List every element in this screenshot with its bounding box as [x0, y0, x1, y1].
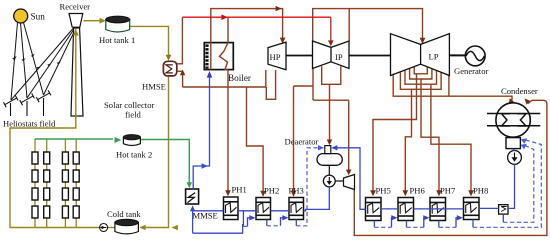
receiver — [69, 14, 83, 28]
arrow red into IP — [328, 40, 334, 46]
wire extraction to PH1 — [227, 87, 229, 194]
svg-text:Cold tank: Cold tank — [107, 209, 141, 219]
arrow extraction into PH3 — [291, 191, 297, 197]
svg-text:Deaerator: Deaerator — [285, 137, 319, 147]
solar tower — [71, 28, 83, 116]
arrow feed right to boiler riser — [202, 163, 208, 168]
svg-text:PH5: PH5 — [376, 186, 391, 196]
arrow dashed into hotwell lower — [521, 144, 527, 150]
svg-text:PH3: PH3 — [289, 186, 304, 196]
arrow green into hot tank 2 — [115, 137, 122, 143]
arrow LP steam into PH6 — [403, 190, 409, 196]
arrow green into MMSE top — [187, 182, 193, 188]
reflected ray heliostat 3 to receiver — [44, 29, 76, 95]
wire LP hook 2 — [410, 69, 432, 79]
wire extraction to BFP turbine — [348, 100, 350, 172]
arrow salt up to receiver — [73, 29, 79, 36]
sun ray to heliostat 3 — [24, 23, 44, 96]
wire riser inside tower to receiver — [75, 29, 77, 119]
wire LP extraction to PH8 — [431, 84, 471, 193]
wire HMSE outlet riser to red line — [177, 17, 183, 64]
deaerator vessel — [317, 154, 342, 166]
wire boiler internal evaporator tube — [210, 43, 212, 70]
generator — [465, 46, 485, 66]
condenser cooling water line top — [487, 113, 540, 115]
svg-text:Hot tank 1: Hot tank 1 — [99, 35, 135, 45]
reflected ray heliostat 1 to receiver — [11, 28, 74, 100]
wire cold salt: bottom line to tower riser — [10, 119, 100, 228]
arrow extraction into BFPT — [346, 170, 352, 176]
salt pump — [100, 224, 108, 232]
reflected ray heliostat 2 to receiver — [27, 29, 75, 99]
hot tank 2 — [123, 135, 140, 146]
wire receiver to hot tank 1 — [84, 20, 104, 22]
preheater PH6 — [398, 198, 414, 221]
arrow salt into HMSE top — [166, 55, 172, 61]
svg-text:LP: LP — [429, 52, 439, 62]
wire dashed PH2 drain step — [267, 225, 281, 227]
arrow LP steam into PH8 — [468, 190, 474, 196]
wire LP hook 3 — [405, 71, 437, 84]
preheater PH7 — [430, 198, 446, 221]
shaft pump-BFPT — [335, 180, 343, 182]
wire HP bottom U-link — [266, 70, 275, 99]
collector column 1 — [34, 139, 36, 228]
preheater PH3 — [289, 198, 304, 220]
wire LP exhaust hook to condenser — [393, 75, 449, 96]
arrow drain into PH2 — [249, 215, 255, 220]
wire HMSE down to cold tank line — [141, 77, 169, 228]
arrow dashed into deaerator left — [318, 145, 324, 150]
arrow salt into cold tank right — [139, 225, 145, 231]
wire PH1 to MMSE riser — [193, 210, 224, 212]
wire LP extraction to PH5 — [373, 74, 417, 194]
wire MMSE outlet to boiler — [193, 76, 209, 190]
svg-text:PH6: PH6 — [410, 186, 426, 196]
wire dashed PH3 drain to deaerator — [296, 148, 321, 226]
deaerator feed pump — [323, 175, 335, 187]
hot tank 1 — [106, 16, 130, 32]
deaerator stub — [325, 146, 331, 154]
turbine IP — [313, 41, 350, 69]
wire LP extraction to PH6 — [405, 89, 411, 193]
arrow red flow right — [221, 14, 227, 20]
wire HP exhaust to HMSE and boiler — [183, 70, 266, 87]
arrow feed into deaerator right — [331, 145, 337, 150]
wire boiler main steam riser to HP — [211, 9, 283, 43]
svg-text:field: field — [125, 110, 141, 120]
wire gland cooler to PH8 — [479, 207, 499, 209]
boiler burner hatch — [205, 44, 208, 68]
wire LP extraction to PH7 — [421, 79, 439, 194]
arrow main steam into HP — [280, 38, 286, 44]
arrow LP steam into PH7 — [436, 190, 442, 196]
wire extraction to PH3 — [293, 86, 295, 194]
cold tank — [115, 219, 139, 234]
svg-text:PH8: PH8 — [473, 186, 488, 196]
arrow salt on line right of HMSE downcomer — [172, 225, 178, 231]
arrow HP exhaust up into HMSE — [180, 70, 185, 76]
svg-text:PH1: PH1 — [232, 185, 247, 195]
wire dashed PH6 drain step — [407, 226, 424, 228]
wire drain PH8 down — [472, 220, 474, 228]
wire extraction to PH2 — [247, 87, 264, 194]
svg-text:MMSE: MMSE — [193, 211, 218, 221]
arrow feed up into boiler — [207, 71, 213, 78]
wire collector header to hot tank 2 — [35, 138, 113, 140]
svg-text:Condenser: Condenser — [501, 86, 538, 96]
wire IP to LP crossover bridge — [313, 9, 423, 41]
svg-text:Generator: Generator — [454, 66, 488, 76]
collector panels grid — [32, 152, 79, 218]
condenser hotwell — [506, 138, 520, 149]
condenser cooling water line bottom — [487, 125, 540, 127]
condenser tube glyph right — [517, 114, 526, 126]
wire cold tank to pump suction — [108, 227, 115, 229]
wire dashed PH1 drain step — [243, 225, 247, 227]
svg-text:Sun: Sun — [31, 12, 46, 22]
wire bottom collector line — [193, 224, 243, 233]
arrow drain into PH7 — [423, 215, 429, 220]
wire drain PH3 down — [295, 220, 297, 226]
svg-text:Receiver: Receiver — [60, 2, 91, 12]
wire condensate main through PH8-PH5 — [414, 208, 464, 210]
arrow drain into PH3 — [282, 215, 288, 220]
condenser tube glyph left — [502, 114, 510, 126]
svg-text:HMSE: HMSE — [142, 82, 166, 92]
wire IP extraction manifold — [312, 41, 314, 100]
preheater PH5 — [366, 198, 382, 221]
gland steam cooler box — [499, 205, 508, 214]
svg-text:Solar collector: Solar collector — [104, 100, 154, 110]
svg-text:IP: IP — [335, 52, 343, 62]
wire hot tank 2 to MMSE — [141, 140, 190, 186]
shaft IP-LP — [349, 55, 391, 57]
arrow LP exhaust into condenser — [509, 98, 515, 105]
wire deaerator to pump — [328, 165, 330, 175]
wire drain gland cooler down — [502, 214, 504, 222]
arrow drain into PH6 — [391, 215, 397, 220]
wire PH5 to deaerator riser — [334, 148, 366, 210]
wire feed main through PH3-PH1 — [271, 210, 290, 212]
shaft HP-IP — [286, 55, 313, 57]
svg-text:PH2: PH2 — [264, 186, 279, 196]
svg-text:Hot tank 2: Hot tank 2 — [116, 150, 152, 160]
heliostat 1 — [4, 95, 19, 116]
arrow extraction into deaerator stub — [327, 140, 333, 146]
wire LP hook 1 — [414, 67, 427, 74]
turbine LP — [391, 34, 450, 76]
sun — [14, 9, 28, 23]
wire hot reheat to IP — [182, 16, 330, 18]
svg-text:HP: HP — [270, 52, 281, 62]
svg-text:Boiler: Boiler — [228, 73, 251, 83]
collector column 2 — [46, 139, 48, 228]
wire reheat coil zigzag through boiler — [220, 17, 229, 87]
collector column 3 — [64, 139, 66, 228]
arrow crossover into LP — [420, 38, 426, 44]
wire extraction to deaerator — [329, 84, 331, 142]
wire dashed PH5 drain step — [374, 226, 391, 228]
arrow extraction into PH2 — [260, 191, 266, 197]
svg-text:Heliostats field: Heliostats field — [3, 119, 56, 129]
sun ray to heliostat 2 — [21, 23, 28, 98]
arrow LP steam into PH5 — [370, 190, 376, 196]
wire drain step PH6-PH7 — [406, 221, 408, 228]
heliostat 3 — [36, 90, 51, 116]
heliostat 2 — [20, 93, 35, 116]
wire deaerator pump discharge to PH3 — [304, 187, 330, 211]
wire drain step PH7-PH8 — [438, 221, 440, 228]
arrow BFPT exhaust into condenser — [525, 99, 531, 105]
wire LP hook 4 — [400, 73, 441, 90]
sun ray to heliostat 1 — [11, 23, 18, 101]
preheater PH2 — [256, 198, 271, 220]
preheater PH8 — [464, 198, 480, 220]
collector column 4 — [75, 139, 77, 228]
wire drain step PH2-PH3 — [266, 220, 268, 226]
shaft LP-generator — [449, 54, 465, 56]
arrow dashed into hotwell upper — [521, 138, 527, 144]
wire drain step PH5-PH6 — [373, 221, 375, 228]
arrow feed up into MMSE bottom — [190, 206, 195, 212]
wire dashed PH8 drain to condenser — [473, 140, 541, 228]
wire condensate pump down and to gland cooler — [513, 149, 514, 151]
wire drain step PH1-PH2 — [242, 211, 244, 227]
BFP turbine — [344, 175, 355, 190]
condensate pump — [508, 151, 522, 165]
wire dashed gland cooler drain to condenser — [503, 145, 534, 223]
svg-text:PH7: PH7 — [440, 186, 456, 196]
arrow salt into hot tank 1 — [100, 18, 106, 24]
arrow drain into PH8 — [457, 215, 463, 220]
wire hot tank 1 to HMSE — [130, 26, 169, 58]
turbine HP — [268, 42, 286, 70]
wire IP inner hook — [322, 66, 341, 84]
arrow extraction into PH1 — [225, 190, 231, 196]
preheater PH1 — [224, 197, 239, 220]
wire BFPT exhaust to condenser — [354, 100, 547, 235]
wire dashed PH7 drain step — [439, 226, 456, 228]
